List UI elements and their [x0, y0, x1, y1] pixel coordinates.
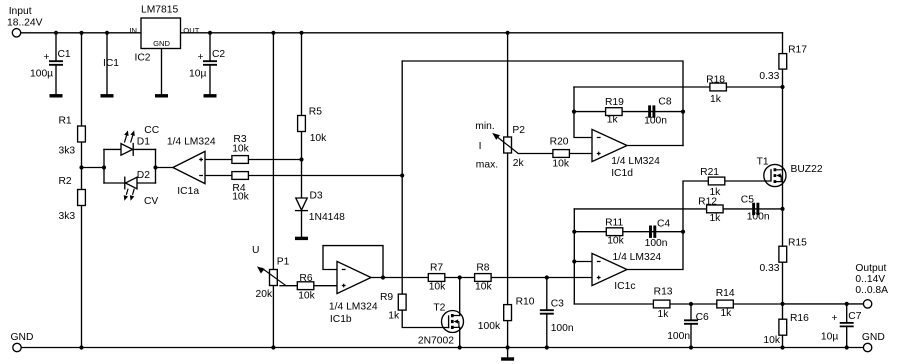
svg-text:IC1d: IC1d — [611, 168, 633, 179]
wire bottom GND rail — [21, 347, 863, 349]
svg-text:R13: R13 — [654, 286, 673, 297]
svg-text:IC2: IC2 — [135, 53, 151, 64]
svg-text:100µ: 100µ — [30, 69, 53, 80]
resistor R8 — [475, 263, 493, 293]
svg-text:1/4 LM324: 1/4 LM324 — [167, 137, 216, 148]
capacitor C8 — [644, 97, 672, 127]
wire R13/R14 row — [574, 303, 782, 305]
wire IC1b feedback — [323, 246, 383, 278]
svg-text:C8: C8 — [658, 97, 671, 108]
wire P2/R10 vertical with ground stub — [507, 33, 509, 359]
resistor R18 — [706, 75, 726, 105]
potentiometer P2 — [475, 121, 525, 171]
resistor R11 — [605, 217, 625, 246]
resistor R14 — [716, 288, 735, 319]
resistor R19 — [605, 97, 624, 125]
svg-text:R7: R7 — [430, 263, 443, 274]
wire P2 wiper to R20 to IC1d +in — [518, 153, 592, 155]
svg-text:1N4148: 1N4148 — [309, 212, 345, 223]
regulator IC2 LM7815 — [129, 5, 199, 64]
wire C1 branch — [55, 33, 57, 95]
node C7 junction — [845, 302, 849, 306]
svg-text:10k: 10k — [763, 335, 780, 346]
wire IC1a output — [156, 167, 174, 169]
svg-text:IC1a: IC1a — [177, 186, 199, 197]
wire R19/C8 feedback row — [574, 111, 683, 113]
wire IC1a +in to R3 — [205, 159, 302, 161]
svg-text:0.33: 0.33 — [759, 71, 779, 82]
svg-text:0..14V: 0..14V — [855, 274, 885, 285]
ground D3 — [295, 237, 308, 240]
svg-text:R20: R20 — [550, 137, 569, 148]
capacitor C6 — [667, 312, 709, 342]
transistor T1 BUZ22 — [757, 156, 823, 186]
wire IC1 supply stub — [106, 33, 108, 95]
svg-text:OUT: OUT — [183, 26, 199, 35]
wire IC1c output up to R21 — [627, 181, 766, 270]
svg-text:R8: R8 — [476, 263, 489, 274]
wire right rail — [782, 33, 784, 348]
svg-text:100n: 100n — [644, 115, 667, 126]
svg-text:+: + — [198, 52, 204, 63]
terminal GND right — [862, 332, 885, 352]
wire D1 branch — [104, 148, 156, 150]
node output/rail junction — [780, 302, 784, 306]
node C6 junction — [689, 302, 693, 306]
resistor R13 — [653, 286, 672, 320]
wire R4 node down to IC1b output / R9 / T2 gate — [402, 61, 448, 328]
wire left vertical (R1/R2 branch) — [81, 33, 83, 348]
svg-text:R18: R18 — [706, 75, 725, 86]
node C5/rail junction — [780, 207, 784, 211]
node IC1c feedback junctions — [572, 230, 685, 264]
resistor R15 — [759, 237, 807, 274]
wire C2 branch — [209, 33, 211, 95]
resistor R5 — [298, 106, 328, 144]
svg-text:GND: GND — [153, 39, 170, 48]
transistor T2 2N7002 — [418, 303, 464, 347]
svg-text:R9: R9 — [380, 292, 393, 303]
wire IC2 gnd pin — [161, 49, 163, 96]
wire C6 branch — [690, 304, 692, 348]
svg-text:10k: 10k — [298, 290, 315, 301]
node R5/R3/D3 junction — [299, 157, 303, 161]
resistor R20 — [550, 137, 570, 170]
svg-text:R2: R2 — [59, 176, 72, 187]
wire R18 row — [574, 86, 783, 88]
node R1/R2 junction — [79, 165, 83, 169]
wire T2 drain — [459, 278, 461, 316]
wire IC1d -in vertical — [574, 87, 592, 138]
svg-text:1k: 1k — [388, 311, 400, 322]
capacitor C7 — [821, 311, 862, 343]
wire mid line IC1b out to IC1c +in — [371, 277, 592, 279]
resistor R1 — [59, 116, 86, 157]
resistor R4 — [232, 172, 250, 203]
svg-text:20k: 20k — [256, 289, 273, 300]
wire IC1c -in vertical — [574, 209, 592, 304]
resistor R10 — [478, 296, 535, 332]
svg-text:R6: R6 — [299, 273, 312, 284]
svg-text:D2: D2 — [137, 170, 150, 181]
node R4/loop junction — [400, 173, 404, 177]
wire D2 branch — [104, 182, 156, 184]
svg-text:P1: P1 — [277, 256, 290, 267]
ground center stub — [501, 357, 514, 360]
wire IC1d output — [627, 145, 683, 147]
svg-text:R17: R17 — [788, 44, 807, 55]
svg-text:R12: R12 — [698, 196, 717, 207]
svg-text:CC: CC — [144, 125, 159, 136]
svg-text:R10: R10 — [516, 296, 535, 307]
svg-text:C2: C2 — [212, 49, 225, 60]
LED D1 — [121, 125, 160, 155]
svg-text:T2: T2 — [433, 303, 445, 314]
svg-text:100n: 100n — [551, 323, 574, 334]
node IC1b feedback junction — [381, 275, 385, 279]
op-amp IC1c — [592, 252, 661, 292]
svg-text:1k: 1k — [658, 309, 670, 320]
op-amp IC1b — [329, 261, 378, 325]
wire LED bracket left — [103, 149, 105, 183]
diode D3 1N4148 — [296, 190, 346, 223]
node T2 drain junction — [458, 275, 462, 279]
svg-text:Input: Input — [9, 6, 32, 17]
svg-text:R19: R19 — [605, 97, 624, 108]
resistor R6 — [297, 273, 315, 302]
svg-text:1/4 LM324: 1/4 LM324 — [611, 156, 660, 167]
svg-text:R21: R21 — [700, 167, 719, 178]
svg-text:IN: IN — [129, 26, 137, 35]
wire node A to LED block — [82, 167, 105, 169]
svg-text:GND: GND — [11, 332, 34, 343]
resistor R2 — [59, 176, 86, 222]
ground IC2 — [155, 94, 168, 97]
LED D2 — [124, 170, 159, 207]
svg-text:T1: T1 — [757, 156, 769, 167]
svg-text:1k: 1k — [709, 213, 721, 224]
svg-text:R11: R11 — [605, 217, 623, 228]
svg-text:10k: 10k — [429, 281, 446, 292]
svg-text:Output: Output — [855, 263, 886, 274]
svg-text:1k: 1k — [607, 115, 619, 126]
terminal Input — [7, 6, 43, 37]
svg-text:10k: 10k — [310, 133, 327, 144]
resistor R21 — [700, 167, 725, 198]
svg-text:C7: C7 — [848, 311, 861, 322]
wire IC1a -in to R4 — [205, 175, 402, 177]
svg-text:max.: max. — [476, 160, 498, 171]
resistor R9 — [380, 292, 406, 321]
svg-text:C5: C5 — [741, 194, 754, 205]
ground C1 — [50, 94, 63, 97]
svg-text:R15: R15 — [788, 237, 807, 248]
svg-text:1k: 1k — [720, 308, 732, 319]
svg-text:10k: 10k — [607, 236, 624, 247]
resistor R16 — [763, 313, 809, 346]
node IC1d feedback junctions — [572, 110, 685, 114]
wire T2 source — [459, 327, 461, 347]
svg-text:U: U — [252, 245, 259, 256]
svg-text:C4: C4 — [657, 218, 670, 229]
svg-text:10k: 10k — [232, 191, 249, 202]
svg-text:0.33: 0.33 — [759, 263, 779, 274]
svg-text:D1: D1 — [137, 137, 150, 148]
svg-text:IC1: IC1 — [103, 58, 119, 69]
svg-text:10k: 10k — [232, 144, 249, 155]
svg-text:10µ: 10µ — [821, 332, 838, 343]
svg-text:0..0.8A: 0..0.8A — [855, 285, 888, 296]
svg-text:P2: P2 — [512, 125, 525, 136]
svg-text:10µ: 10µ — [189, 69, 206, 80]
wire P1 wiper to R6 to IC1b +in — [280, 285, 337, 287]
terminal Output — [855, 263, 888, 308]
svg-text:3k3: 3k3 — [59, 211, 76, 222]
capacitor C3 — [540, 299, 574, 335]
wire center vertical (P1 branch) — [272, 33, 274, 348]
svg-text:R5: R5 — [309, 106, 322, 117]
svg-text:R1: R1 — [59, 116, 72, 127]
op-amp IC1a — [167, 137, 216, 198]
wire CC loop (IC1d output to R4 node) — [402, 61, 683, 146]
wire C3 branch — [546, 278, 548, 348]
svg-text:10k: 10k — [552, 159, 569, 170]
resistor R17 — [759, 44, 807, 82]
svg-text:+: + — [44, 52, 50, 63]
capacitor C1 — [30, 49, 71, 80]
svg-text:IC1c: IC1c — [614, 281, 635, 292]
svg-text:100n: 100n — [645, 238, 668, 249]
svg-text:100k: 100k — [478, 321, 501, 332]
svg-text:C6: C6 — [696, 312, 709, 323]
svg-text:D3: D3 — [310, 190, 323, 201]
capacitor C2 — [189, 49, 225, 80]
svg-text:min.: min. — [475, 121, 494, 132]
node bottom rail junctions — [79, 345, 848, 349]
potentiometer P1 — [252, 245, 290, 300]
svg-text:100n: 100n — [667, 331, 690, 342]
capacitor C4 — [645, 218, 671, 249]
terminal GND left — [11, 332, 34, 352]
wire top +V rail — [21, 32, 783, 34]
svg-text:LM7815: LM7815 — [141, 5, 178, 16]
wire R12/C5 row — [574, 208, 782, 210]
svg-text:R16: R16 — [790, 313, 809, 324]
capacitor C5 — [741, 194, 770, 222]
svg-text:CV: CV — [144, 196, 158, 207]
svg-text:BUZ22: BUZ22 — [791, 164, 823, 175]
svg-text:R14: R14 — [716, 288, 735, 299]
resistor R12 — [698, 196, 723, 223]
svg-text:+: + — [832, 313, 838, 324]
svg-text:C3: C3 — [551, 299, 564, 310]
node top rail junctions — [54, 31, 510, 35]
wire R11/C4 feedback row — [574, 231, 683, 233]
wire R5/D3 vertical — [301, 33, 303, 238]
node R18/rail junction — [780, 85, 784, 89]
wire output line — [783, 303, 864, 305]
svg-text:2N7002: 2N7002 — [418, 335, 454, 346]
ground C2 — [204, 94, 217, 97]
svg-text:GND: GND — [862, 332, 885, 343]
node LED bracket junctions — [102, 165, 158, 169]
svg-text:I: I — [479, 141, 482, 152]
wire LED bracket right — [155, 149, 157, 183]
svg-text:IC1b: IC1b — [330, 314, 352, 325]
op-amp IC1d — [592, 129, 660, 179]
resistor R7 — [428, 263, 446, 293]
wire C7 branch — [846, 304, 848, 348]
svg-text:1/4 LM324: 1/4 LM324 — [329, 302, 378, 313]
svg-text:100n: 100n — [747, 212, 770, 223]
resistor R3 — [232, 134, 250, 163]
svg-text:1/4 LM324: 1/4 LM324 — [613, 252, 662, 263]
ground IC1 — [101, 58, 120, 96]
svg-text:10k: 10k — [475, 281, 492, 292]
node C3 junction — [545, 275, 549, 279]
svg-text:2k: 2k — [513, 158, 525, 169]
svg-text:3k3: 3k3 — [59, 146, 76, 157]
svg-text:18..24V: 18..24V — [7, 17, 43, 28]
svg-text:C1: C1 — [58, 49, 71, 60]
svg-text:1k: 1k — [710, 94, 722, 105]
